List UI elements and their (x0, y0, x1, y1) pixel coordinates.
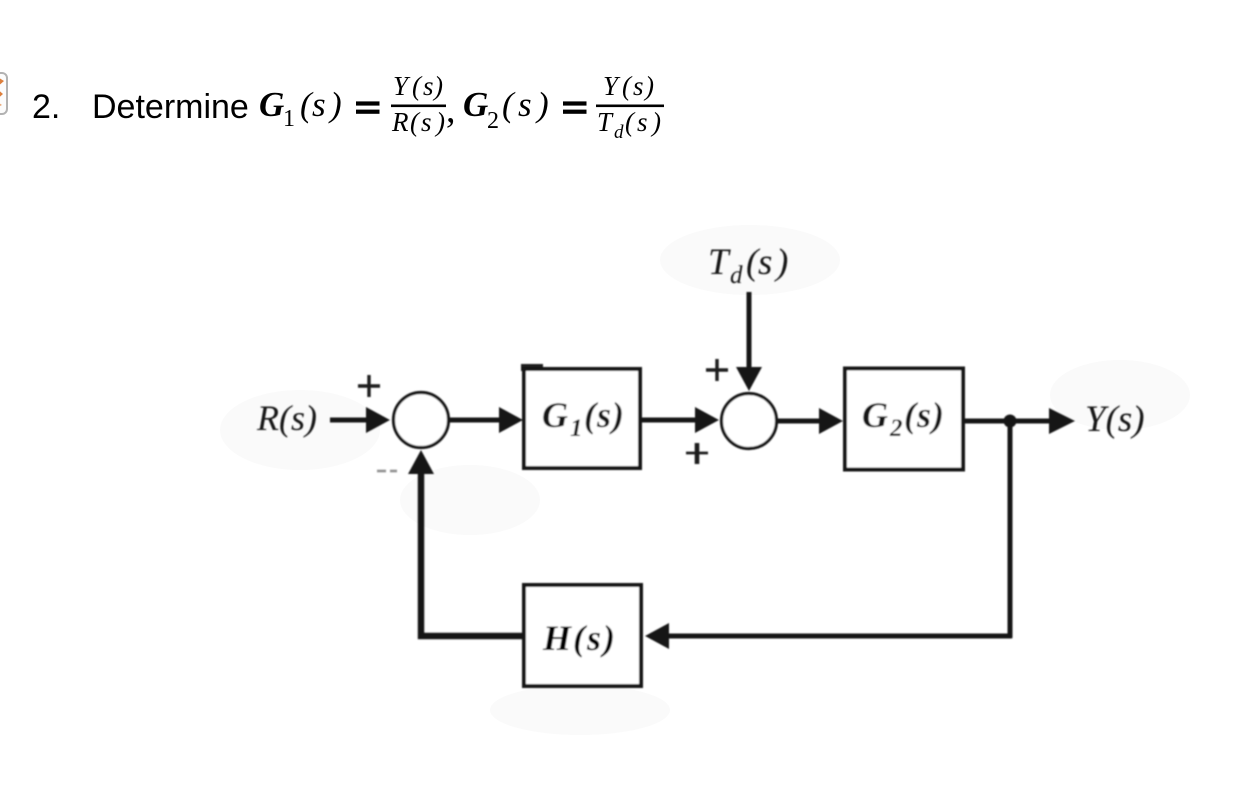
svg-text:G: G (463, 85, 488, 124)
svg-text:s: s (518, 85, 532, 124)
svg-text:(s): (s) (584, 395, 625, 435)
wire: R(s) to summer S1 with arrowhead (330, 407, 390, 433)
junction dot on output wire (1004, 415, 1017, 428)
svg-text:G: G (259, 85, 284, 124)
svg-text:T: T (597, 107, 614, 137)
svg-text:G: G (542, 395, 568, 435)
svg-text:): ) (643, 71, 654, 101)
wire: summer S1 to block G1 with arrowhead (449, 407, 523, 433)
title math: G1(s) = (259, 85, 380, 132)
wire: Td(s) vertical drop into summer S2 (736, 292, 762, 391)
svg-text:s: s (758, 242, 772, 283)
wire: summer S2 to block G2 with arrowhead (777, 408, 843, 434)
wire: block G1 to summer S2 with arrowhead (640, 407, 719, 433)
svg-text:s: s (421, 107, 432, 137)
comment icon (clipped at left page edge) (0, 73, 7, 114)
summer S1 (summing junction circle) (394, 393, 449, 448)
wire: output junction vertical drop to feedback run (1008, 421, 1013, 638)
wire: block H output to left corner (418, 633, 524, 640)
minus sign (faint) at feedback input of summer S1 (377, 470, 397, 473)
svg-text:): ) (535, 85, 549, 124)
svg-text:s: s (423, 71, 434, 101)
scan artifact: blob at G2 bottom-right edge (957, 444, 964, 470)
plus sign at G1 input of summer S2 (686, 443, 708, 464)
block G1 rectangle (524, 369, 640, 468)
svg-text:): ) (434, 107, 445, 137)
svg-text:): ) (774, 242, 788, 283)
title math: G2(s) = (463, 85, 587, 134)
title math: fraction Y(s)/Td(s) (596, 71, 664, 143)
svg-text:Y(s): Y(s) (1085, 399, 1145, 440)
svg-text:d: d (730, 262, 743, 289)
svg-text:1: 1 (283, 106, 295, 132)
svg-text:s: s (633, 71, 644, 101)
svg-text:2: 2 (487, 108, 499, 134)
svg-text:): ) (650, 107, 661, 137)
wire: feedback vertical rise into summer S1 with arrowhead (408, 450, 434, 639)
svg-text:H(s): H(s) (542, 618, 617, 658)
wire: feedback run into block H with arrowhead (645, 623, 1012, 649)
svg-text:,: , (446, 89, 456, 131)
svg-text:): ) (432, 71, 443, 101)
svg-text:s: s (637, 107, 648, 137)
svg-text:2.: 2. (32, 88, 60, 126)
summer S2 (summing junction circle) (722, 394, 777, 449)
svg-text:d: d (614, 122, 624, 143)
svg-text:2: 2 (889, 415, 903, 442)
svg-text:Determine: Determine (92, 88, 249, 126)
node Td(s) input label (708, 242, 788, 289)
plus sign at R(s) input of summer S1 (358, 375, 380, 397)
title math: fraction Y(s)/R(s), (391, 71, 456, 137)
svg-text:R: R (391, 107, 409, 137)
wire: block G2 to output Y(s) with arrowhead (963, 408, 1075, 434)
block H rectangle (524, 585, 641, 686)
faint scan-tone patches (220, 225, 1190, 735)
block G2 label G2(s) (862, 395, 945, 442)
svg-text:s: s (312, 85, 326, 124)
block G2 rectangle (845, 369, 963, 470)
svg-text:G: G (862, 395, 888, 435)
block G1 label G1(s) (542, 395, 625, 442)
svg-text:(s): (s) (904, 395, 945, 435)
svg-text:T: T (708, 242, 731, 283)
plus sign at Td input of summer S2 (706, 359, 728, 381)
svg-text:R(s): R(s) (256, 398, 317, 438)
svg-text:1: 1 (570, 415, 583, 442)
svg-text:): ) (328, 85, 342, 124)
scan artifact: dark notch on G1 top-left corner (521, 364, 543, 371)
